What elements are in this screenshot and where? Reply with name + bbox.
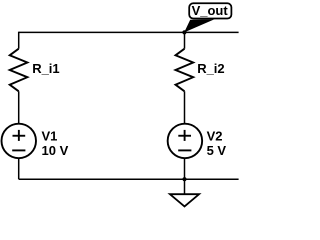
wire: left branch, top corner down to R_i1	[18, 32, 20, 49]
svg-text:V_out: V_out	[192, 3, 229, 18]
svg-text:V1: V1	[42, 128, 58, 143]
callout box: V_out	[189, 3, 231, 18]
junction: bottom node dot	[182, 177, 186, 181]
svg-text:5 V: 5 V	[207, 143, 227, 158]
wire: right branch, V_out node down to R_i2	[184, 32, 186, 48]
ground	[170, 194, 199, 206]
voltage source V1	[2, 124, 37, 159]
wire: ground stub	[184, 179, 186, 194]
resistor R_i1	[10, 49, 28, 92]
wire: bottom net	[19, 178, 239, 180]
svg-text:R_i1: R_i1	[32, 61, 59, 76]
svg-text:R_i2: R_i2	[197, 61, 224, 76]
svg-text:10 V: 10 V	[42, 143, 69, 158]
wire: right branch, R_i2 to V2	[184, 91, 186, 124]
voltage source V2	[168, 124, 203, 159]
wire: left branch, V1 to bottom net	[18, 158, 20, 179]
callout pointer: V_out	[184, 19, 214, 32]
wire: top net (V_out) from left branch to right edge	[19, 31, 239, 33]
wire: right branch, V2 to bottom net	[184, 158, 186, 179]
wire: left branch, R_i1 to V1	[18, 91, 20, 124]
node: V_out junction dot	[182, 30, 186, 34]
resistor R_i2	[176, 49, 194, 92]
svg-text:V2: V2	[207, 128, 223, 143]
